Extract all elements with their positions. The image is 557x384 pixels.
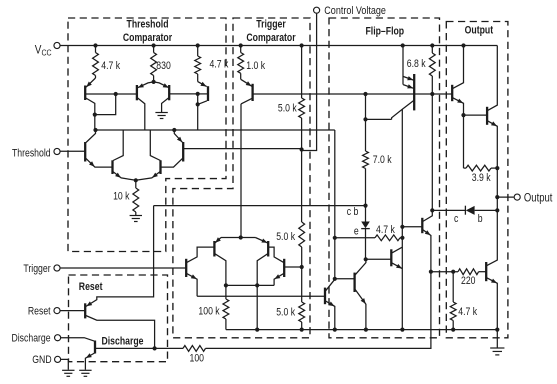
transistor Q13 trigger input right — [283, 259, 285, 277]
transistor Q20 output NPN upper — [451, 85, 453, 101]
node rail-Q14 — [333, 328, 337, 332]
dashed box: Output section — [446, 22, 508, 338]
transistor Q6 threshold darlington left — [111, 160, 113, 174]
wire FF collector to 7.0k column — [366, 118, 392, 120]
wire threshold stage link y=130 — [96, 129, 335, 131]
svg-text:Trigger: Trigger — [256, 19, 286, 31]
node base-loop junction — [114, 92, 118, 96]
resistor R15 10k — [135, 180, 137, 188]
diode D2 (c-b junction, pointing left) — [464, 206, 466, 215]
wire ground rail y=329.6 — [226, 329, 497, 331]
terminal Threshold — [54, 148, 60, 154]
wire Q17-diode y=210.4 — [432, 209, 465, 211]
wire Q3 collector to ground — [162, 98, 169, 112]
wire VCC rail — [60, 45, 497, 47]
transistor Q17 flip-flop output NPN — [421, 218, 423, 233]
wire threshold mirror bases y=94 — [86, 93, 137, 95]
node R3-Q4 base — [196, 92, 200, 96]
svg-text:4.7 k: 4.7 k — [458, 306, 477, 318]
wire to output terminal — [497, 196, 514, 198]
wire trigger output base y=296.2 — [197, 295, 325, 297]
svg-text:e: e — [354, 226, 359, 238]
node set-node 4.7k — [333, 236, 337, 240]
resistor R8 5.0k middle — [301, 150, 303, 223]
node Q4 collector — [196, 102, 200, 106]
dashed box: Flip-Flop section — [329, 18, 440, 338]
dashed box: Trigger Comparator section — [173, 18, 310, 338]
transistor Q1 (mirror, diode-connected PNP) — [95, 76, 97, 79]
wire Q6 collector riser — [113, 130, 123, 161]
node VCC-R6 — [430, 43, 434, 47]
ground under 10k — [135, 212, 137, 216]
node Q17 collector — [430, 208, 434, 212]
svg-text:5.0 k: 5.0 k — [276, 307, 295, 319]
node FF base — [363, 92, 367, 96]
wire discharge collector / 100 ohm line — [96, 347, 183, 349]
node rail-diode-col — [364, 328, 368, 332]
resistor R6 6.8k — [431, 46, 433, 54]
transistor Q16 flip-flop NPN — [390, 249, 392, 266]
node FF collector — [363, 117, 367, 121]
terminal Output — [514, 194, 520, 200]
svg-text:4.7 k: 4.7 k — [101, 60, 120, 72]
resistor R3 4.7k — [197, 46, 199, 57]
node right input feed — [172, 128, 176, 132]
wire Q20-Q21 base — [464, 114, 487, 116]
node threshold tail — [134, 178, 138, 182]
wire mirror base right segment — [169, 93, 198, 95]
diode D1 (e junction, pointing down) — [361, 222, 370, 229]
node VCC-FF-emitter — [401, 43, 405, 47]
svg-text:Control Voltage: Control Voltage — [324, 5, 386, 17]
dashed box: Reset/Discharge section — [69, 275, 168, 362]
wire GND terminal — [61, 359, 68, 369]
ground discharge emitter — [79, 369, 91, 371]
svg-text:220: 220 — [461, 275, 476, 287]
node VCC-output — [461, 43, 465, 47]
node Q16 base feed — [364, 257, 368, 261]
wire threshold reference y=148.6 — [184, 148, 302, 150]
resistor R1 4.7k — [95, 46, 97, 53]
wire T23 base y=278.8 — [335, 278, 354, 280]
svg-text:Threshold: Threshold — [127, 19, 169, 31]
ground GND terminal — [62, 369, 74, 371]
wire threshold output column to flip-flop — [334, 130, 336, 279]
node VCC-R5 — [300, 43, 304, 47]
terminal VCC — [54, 42, 60, 48]
node FF base2 — [400, 225, 404, 229]
transistor Q12 trigger input left — [60, 267, 186, 269]
wire Q9 collector column to trigger tail — [240, 104, 242, 238]
node rail-end — [495, 328, 499, 332]
resistor R7 7.0k — [363, 151, 369, 169]
wire R3 column — [197, 74, 199, 82]
terminal Control Voltage — [314, 7, 320, 13]
node Q14 collector — [333, 277, 337, 281]
node mirror-left — [224, 283, 228, 287]
svg-text:Discharge: Discharge — [102, 336, 145, 348]
svg-text:c b: c b — [347, 206, 359, 218]
resistor R13 220 — [458, 269, 479, 275]
node VCC-R4 — [239, 43, 243, 47]
transistor Q7 threshold input right — [182, 142, 184, 162]
svg-text:Comparator: Comparator — [123, 32, 172, 44]
node rail-FF — [400, 328, 404, 332]
transistor Q14 trigger output NPN — [324, 288, 326, 305]
transistor Q18 reset PNP — [60, 310, 84, 312]
svg-text:1.0 k: 1.0 k — [246, 60, 265, 72]
svg-text:10 k: 10 k — [113, 191, 130, 203]
wire 100 ohm to flip-flop riser — [206, 272, 431, 349]
svg-text:Reset: Reset — [79, 281, 103, 293]
node rail-4.7k — [451, 328, 455, 332]
wire 6.8k column down to Q17 collector — [431, 94, 433, 210]
wire FF left column — [365, 94, 367, 151]
svg-text:100: 100 — [190, 353, 205, 365]
wire Q2 collector — [138, 98, 145, 130]
resistor R10 5.0k lower — [301, 267, 303, 302]
svg-text:b: b — [478, 213, 483, 225]
svg-text:Comparator: Comparator — [246, 32, 295, 44]
terminal Trigger — [54, 265, 60, 271]
svg-text:830: 830 — [156, 60, 171, 72]
dashed box: Threshold Comparator section — [68, 18, 226, 252]
svg-text:Threshold: Threshold — [12, 148, 51, 160]
svg-text:Reset: Reset — [28, 306, 51, 318]
resistor R4 1.0k — [240, 46, 242, 53]
node FF-discharge link — [429, 270, 433, 274]
wire discharge emitter to ground — [85, 353, 94, 370]
wire comparator output y=94 — [253, 93, 452, 95]
wire Q17 base y=226.8 — [402, 226, 422, 228]
svg-text:5.0 k: 5.0 k — [276, 231, 295, 243]
node Q1 collector-base — [93, 113, 97, 117]
wire output column — [496, 168, 498, 260]
transistor Q8 threshold darlington right — [159, 160, 161, 174]
wire trigger mirror y=285.4 — [226, 284, 274, 286]
node rail-mirror — [255, 328, 259, 332]
node VCC-R1 — [93, 43, 97, 47]
svg-text:4.7 k: 4.7 k — [210, 59, 229, 71]
transistor Q22 output low-side NPN — [485, 262, 487, 281]
ground main rail — [496, 330, 498, 348]
svg-text:100 k: 100 k — [198, 306, 219, 318]
transistor Q4 (mirror PNP) — [207, 86, 209, 101]
wire control voltage feed — [302, 14, 317, 151]
node discharge — [153, 346, 157, 350]
transistor Q2/Q3 dual PNP common emitter — [153, 76, 155, 83]
wire Q8 collector riser — [150, 130, 160, 161]
node mirror-right — [255, 283, 259, 287]
resistor R12 3.9k horizontal — [463, 115, 465, 168]
svg-text:6.8 k: 6.8 k — [407, 58, 426, 70]
wire trigger tail y=237.5 — [221, 237, 255, 239]
svg-text:Discharge: Discharge — [11, 333, 50, 345]
svg-text:Output: Output — [465, 25, 494, 37]
transistor Q11 trigger inner-right — [267, 241, 269, 257]
node diode-b — [495, 208, 499, 212]
node 6.8k-output wire — [430, 92, 434, 96]
terminal GND — [55, 356, 61, 362]
transistor Q5 threshold input left — [60, 150, 84, 152]
terminal Reset — [54, 308, 60, 314]
wire 220 feed y=271.7 — [431, 271, 458, 273]
wire FF right column — [401, 109, 403, 329]
node 3.9k right — [495, 166, 499, 170]
svg-text:Trigger: Trigger — [23, 263, 51, 275]
wire reset line into flip-flop y=205.6 — [154, 205, 366, 207]
terminal Discharge — [55, 335, 61, 341]
resistor R2 830 — [153, 46, 155, 53]
node reset-line junction — [363, 204, 367, 208]
svg-text:GND: GND — [32, 354, 51, 366]
transistor Q15 flip-flop lateral PNP — [413, 74, 415, 110]
wire Q1 base loop — [95, 94, 116, 115]
node rail-divider — [300, 328, 304, 332]
svg-text:c: c — [454, 213, 458, 225]
node Q20 emitter — [461, 113, 465, 117]
node VCC-R2 — [152, 43, 156, 47]
resistor R14 100 — [183, 346, 206, 352]
transistor Q23 flip-flop NPN lower-left — [353, 273, 355, 292]
node VCC-R3 — [196, 43, 200, 47]
svg-text:Flip–Flop: Flip–Flop — [365, 26, 404, 38]
resistor R16 4.7k vertical — [452, 272, 454, 302]
node left column — [93, 128, 97, 132]
resistor R9 100k — [223, 299, 229, 319]
node 5.0k divider / control voltage — [300, 147, 304, 151]
ground under dual PNP — [155, 112, 167, 114]
transistor Q9 (PNP under 1.0k) — [240, 73, 242, 79]
transistor Q21 output NPN follower — [486, 107, 488, 125]
node output tap — [495, 195, 499, 199]
transistor Q10 trigger inner-left — [213, 241, 215, 257]
svg-text:7.0 k: 7.0 k — [373, 154, 392, 166]
svg-text:5.0 k: 5.0 k — [278, 103, 297, 115]
resistor R5 5.0k upper — [301, 46, 303, 99]
svg-text:Output: Output — [524, 192, 553, 205]
node 4.7k right — [400, 236, 404, 240]
transistor Q19 discharge NPN — [61, 338, 95, 342]
node 220-4.7k — [451, 270, 455, 274]
wire Q13 base to divider — [285, 266, 302, 268]
node trigger tail — [239, 235, 243, 239]
wire Q16 base y=259.3 — [366, 258, 391, 260]
node divider mid — [300, 265, 304, 269]
svg-text:3.9 k: 3.9 k — [472, 172, 491, 184]
